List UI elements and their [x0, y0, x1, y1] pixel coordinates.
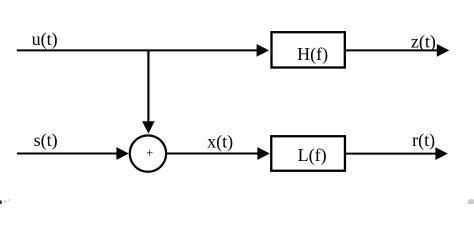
- block H(f): [272, 32, 345, 67]
- wire: r(t) output from L(f): [345, 153, 437, 155]
- scan artifact bottom-left corner: [0, 201, 2, 205]
- arrowhead z(t) output: [437, 44, 449, 57]
- summing junction circle: [130, 135, 166, 171]
- wire: x(t) line from summer to L(f): [167, 153, 259, 155]
- arrowhead r(t) output: [435, 147, 447, 160]
- svg-text:L(f): L(f): [298, 145, 327, 166]
- arrowhead into summer left: [116, 147, 128, 160]
- svg-text:H(f): H(f): [297, 44, 328, 65]
- arrowhead into summer top: [142, 121, 155, 133]
- arrowhead into L(f): [257, 147, 269, 160]
- svg-text:s(t): s(t): [34, 130, 58, 151]
- scan artifact bottom-right corner: [468, 199, 474, 206]
- wire: z(t) output from H(f): [345, 49, 438, 51]
- wire: branch down from u(t) line to summer: [147, 50, 149, 123]
- svg-text:r(t): r(t): [412, 130, 435, 151]
- svg-text:u(t): u(t): [32, 29, 58, 50]
- svg-text:+: +: [146, 146, 153, 160]
- block L(f): [271, 136, 345, 171]
- wire: u(t) input line to H(f): [17, 49, 258, 51]
- svg-text:z(t): z(t): [411, 32, 436, 53]
- wire: s(t) input line to summer: [17, 153, 118, 155]
- svg-text:x(t): x(t): [207, 132, 233, 153]
- arrowhead into H(f): [257, 44, 269, 57]
